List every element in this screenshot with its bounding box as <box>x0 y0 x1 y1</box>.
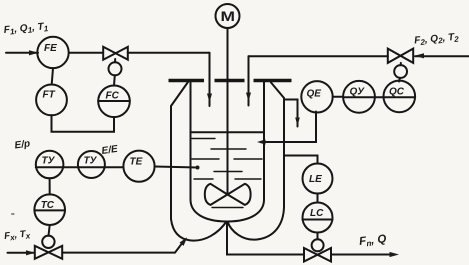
wire QE-QY <box>333 96 344 98</box>
actuator A4 <box>312 239 324 251</box>
instrument QC <box>384 81 416 113</box>
instrument LC <box>303 203 333 233</box>
svg-text:ТС: ТС <box>41 200 55 211</box>
wire TE probe <box>155 167 198 168</box>
arrow feed1 into vessel <box>207 94 212 103</box>
instrument QE <box>301 81 332 112</box>
wire feed2 downpipe <box>248 56 250 105</box>
wire outlet <box>331 254 393 256</box>
wire valve2 to downpipe <box>249 55 388 57</box>
valve V3 <box>35 246 62 259</box>
wire TY1-TC <box>49 178 51 194</box>
instrument FT <box>36 85 67 116</box>
svg-text:ТУ: ТУ <box>42 156 56 167</box>
wire FC-actuator <box>113 75 116 85</box>
wire FT-FC U link <box>52 115 115 132</box>
jacket left wall <box>171 82 188 219</box>
svg-text:Е/р: Е/р <box>14 138 31 151</box>
wire valve2-actuator <box>400 63 402 65</box>
arrow feed2 <box>415 53 425 58</box>
liquid surface <box>191 131 264 133</box>
drain pipe <box>227 222 304 255</box>
wire FE to valve <box>69 52 103 54</box>
wire feed1 left <box>6 52 38 54</box>
svg-text:FT: FT <box>43 90 56 101</box>
svg-text:FC: FC <box>106 91 120 102</box>
wire TY1-TY2-TE row with midlines <box>36 166 124 168</box>
instrument TY1 <box>36 151 64 179</box>
wire feed1 downpipe <box>209 53 211 106</box>
jacket right wall <box>271 83 284 208</box>
motor M <box>216 4 240 28</box>
liquid hatch dashes <box>192 139 262 208</box>
arrow feed1 <box>29 50 39 55</box>
instrument QY <box>343 81 375 113</box>
svg-text:ТУ: ТУ <box>84 156 98 167</box>
actuator A2 <box>394 65 407 78</box>
valve V4 <box>304 248 331 262</box>
valve V1 <box>103 47 128 60</box>
wire LE-LC <box>317 194 319 203</box>
wire QE sample line <box>262 112 316 143</box>
svg-text:Е/Е: Е/Е <box>101 144 119 157</box>
wire Fx to jacket <box>62 239 185 252</box>
svg-text:LE: LE <box>309 174 322 185</box>
wire QY-QC <box>375 96 384 98</box>
impeller <box>205 184 228 205</box>
svg-text:QУ: QУ <box>350 87 366 98</box>
svg-text:ТЕ: ТЕ <box>130 157 143 168</box>
svg-text:QE: QE <box>307 89 322 100</box>
instrument TC <box>34 194 65 225</box>
arrow coolant out <box>295 118 300 127</box>
wire feed2 right <box>415 55 469 57</box>
coolant outlet stub <box>284 100 298 127</box>
instrument TE <box>123 151 154 182</box>
wire Fx left <box>8 252 35 254</box>
instrument FC <box>98 86 130 118</box>
svg-text:LC: LC <box>310 208 324 219</box>
arrow outlet <box>390 252 400 257</box>
inner vessel left wall <box>191 82 227 222</box>
svg-text:M: M <box>221 8 236 24</box>
wire FE-FT <box>52 68 53 85</box>
jacket bottom left petal <box>171 219 227 241</box>
svg-text:FE: FE <box>44 43 57 54</box>
inner vessel right wall <box>228 82 265 222</box>
jacket bottom right petal <box>228 207 285 240</box>
node TE probe tip <box>196 166 200 170</box>
wire LC-actuator <box>317 233 319 240</box>
wire shaft <box>227 28 229 194</box>
arrow Fx <box>26 250 35 255</box>
actuator A3 <box>42 236 54 248</box>
arrow feed2 into vessel <box>246 93 251 102</box>
vessel lid <box>169 79 292 82</box>
svg-text:QC: QC <box>389 87 405 98</box>
wire valve to downpipe <box>128 52 210 54</box>
instrument TY2 <box>78 151 105 178</box>
arrow QE sample <box>257 139 266 144</box>
valve V2 <box>388 49 413 63</box>
instrument FE <box>37 37 68 68</box>
wire TC-actuator <box>49 225 50 236</box>
wire LE tap <box>285 156 318 164</box>
arrow Fx into jacket <box>180 237 188 246</box>
instrument LE <box>303 164 333 194</box>
stray scan speck <box>11 213 15 215</box>
actuator A1 <box>109 62 122 75</box>
